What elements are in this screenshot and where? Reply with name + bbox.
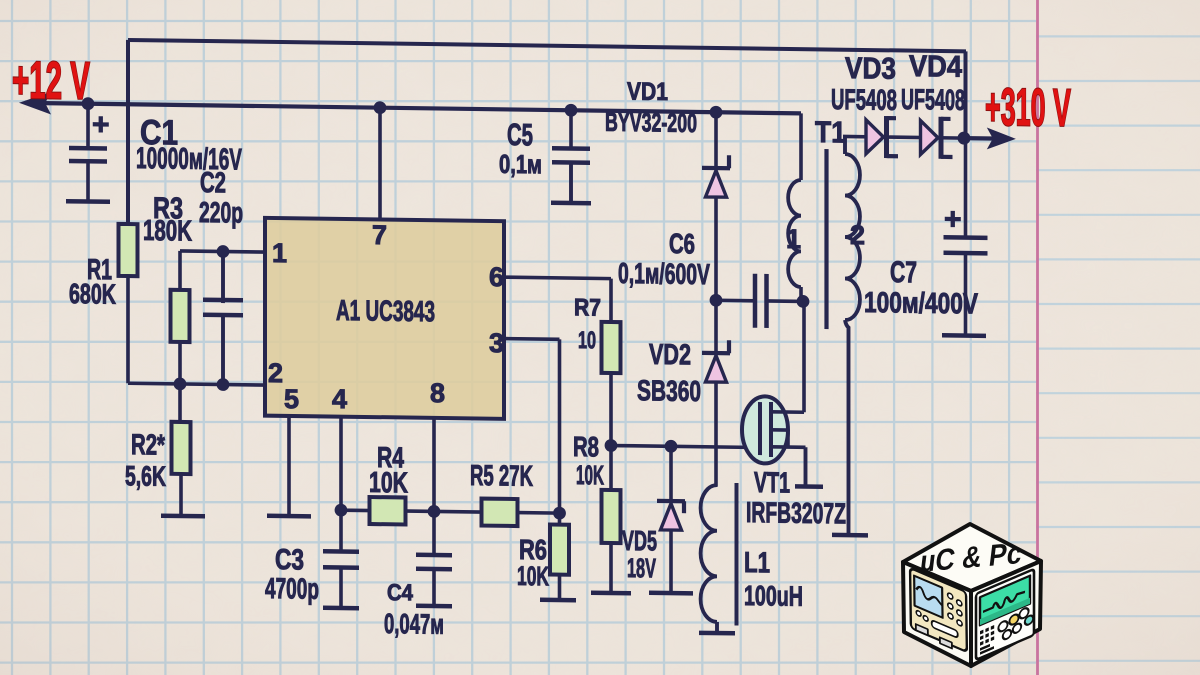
svg-text:7: 7	[372, 220, 387, 250]
svg-text:C7: C7	[890, 256, 917, 289]
svg-text:C3: C3	[275, 544, 304, 576]
svg-text:4700p: 4700p	[265, 573, 319, 606]
svg-text:10: 10	[578, 327, 596, 354]
svg-text:5,6K: 5,6K	[125, 460, 166, 492]
svg-text:1: 1	[272, 238, 287, 268]
svg-text:R7: R7	[574, 294, 601, 321]
svg-text:VD2: VD2	[649, 339, 691, 372]
svg-text:18V: 18V	[627, 553, 656, 583]
svg-text:A1 UC3843: A1 UC3843	[336, 295, 435, 328]
svg-text:680K: 680K	[69, 278, 116, 310]
svg-text:0,1м: 0,1м	[499, 149, 542, 180]
svg-text:VD1: VD1	[627, 78, 668, 107]
svg-text:R5 27K: R5 27K	[470, 460, 533, 493]
svg-text:C6: C6	[669, 228, 695, 259]
svg-text:R2*: R2*	[131, 429, 166, 461]
svg-text:C5: C5	[507, 117, 533, 152]
svg-text:180K: 180K	[143, 215, 192, 248]
svg-text:IRFB3207Z: IRFB3207Z	[746, 497, 846, 530]
svg-text:100м/400V: 100м/400V	[864, 287, 979, 321]
svg-text:2: 2	[850, 220, 865, 250]
svg-text:T1: T1	[815, 116, 846, 149]
svg-text:BYV32-200: BYV32-200	[605, 107, 697, 138]
svg-text:220p: 220p	[199, 197, 243, 230]
svg-text:1: 1	[786, 224, 801, 254]
svg-text:3: 3	[489, 328, 504, 358]
svg-text:+310 V: +310 V	[985, 78, 1071, 138]
svg-text:6: 6	[489, 262, 504, 292]
svg-text:10K: 10K	[576, 460, 604, 490]
svg-text:VD3: VD3	[845, 52, 896, 86]
svg-text:0,047м: 0,047м	[384, 608, 444, 640]
svg-text:8: 8	[430, 378, 445, 408]
svg-text:UF5408: UF5408	[831, 84, 897, 117]
svg-text:C4: C4	[387, 579, 413, 605]
svg-text:10000м/16V: 10000м/16V	[136, 142, 242, 176]
svg-text:10K: 10K	[517, 561, 549, 591]
svg-text:VD5: VD5	[622, 525, 657, 556]
svg-text:0,1м/600V: 0,1м/600V	[618, 258, 710, 291]
svg-text:L1: L1	[744, 547, 770, 579]
svg-text:VD4: VD4	[909, 50, 962, 84]
svg-text:SB360: SB360	[637, 375, 701, 408]
svg-text:C2: C2	[200, 167, 226, 199]
svg-text:UF5408: UF5408	[901, 84, 965, 117]
svg-text:2: 2	[268, 358, 283, 388]
svg-text:4: 4	[332, 384, 347, 414]
svg-text:5: 5	[284, 384, 299, 414]
svg-text:100uH: 100uH	[744, 580, 803, 612]
svg-text:+12 V: +12 V	[12, 51, 90, 111]
svg-text:+: +	[92, 108, 110, 141]
svg-text:+: +	[944, 203, 962, 236]
svg-text:VT1: VT1	[754, 467, 790, 499]
svg-text:10K: 10K	[369, 467, 408, 500]
svg-text:R8: R8	[573, 431, 599, 462]
